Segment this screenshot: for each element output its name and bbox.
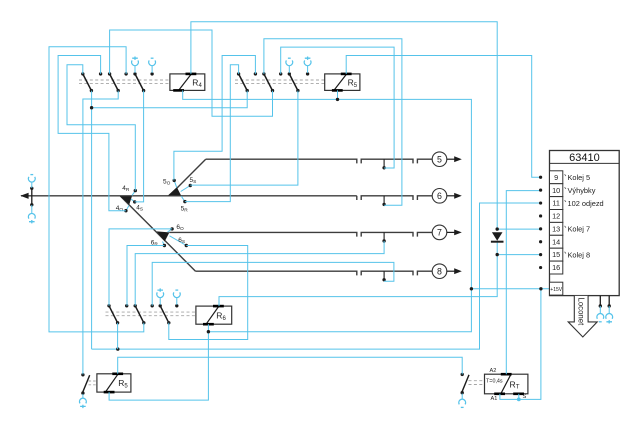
wire: terminal B2 to turnout terminal 5O <box>174 56 256 181</box>
RT switch minus supply plug <box>459 394 466 408</box>
relay R6 contact group supply plug minus <box>173 290 180 305</box>
module terminal pin 13 <box>539 222 590 235</box>
wire: junction line to module pin 11 <box>92 203 541 349</box>
relay coil R5 (lower) <box>97 374 131 392</box>
R5 lower activation switch <box>81 373 89 395</box>
svg-text:Kolej 5: Kolej 5 <box>568 173 591 182</box>
svg-text:Výhybky: Výhybky <box>568 186 596 195</box>
turnout 6 frog (black wedge) <box>157 231 170 241</box>
relay R5 contact group supply plug minus <box>286 58 293 73</box>
relay R4 contact group supply plug minus <box>149 58 156 73</box>
wire: turnout terminal 6O to contact C1 top <box>109 229 172 306</box>
svg-text:7: 7 <box>437 228 442 238</box>
svg-text:8: 8 <box>437 266 442 276</box>
wire: turnout terminal 6S to contact C5 bottom <box>169 246 248 340</box>
turnout 4 frog (black wedge) <box>120 196 132 204</box>
turnout 5 frog (black wedge) <box>168 187 181 195</box>
decoder module 63410 body <box>550 151 620 296</box>
svg-text:A2: A2 <box>490 368 497 374</box>
track line 5 with isolation gaps <box>206 159 433 169</box>
wire: contact A3 bottom to turnout terminal 4S <box>135 91 144 202</box>
turnout 4 terminal 4O <box>116 205 129 213</box>
wire: relay R5 coil bottom stub <box>337 90 339 99</box>
junction dot RT terminal S (cyan) <box>517 398 521 402</box>
wire: cathode junction to module pin 15 <box>497 254 540 256</box>
turnout 5 terminal 5R <box>181 196 189 213</box>
wire: junction to contact B1 bottom <box>92 91 248 108</box>
wire: module pin 10 to RT terminal A2 <box>506 191 540 375</box>
wire: terminal C4 to track 8 tap <box>152 262 394 305</box>
wire: terminal A4 to contact C3 bottom <box>49 47 144 332</box>
relay coil R4 <box>170 74 205 91</box>
module bottom terminal stub right <box>608 296 611 308</box>
R5 lower linkage dashed line <box>89 381 97 385</box>
svg-text:5O: 5O <box>163 179 171 187</box>
svg-text:12: 12 <box>552 212 560 221</box>
connector circle 7 with arrow <box>432 225 462 240</box>
module terminal pin 15 <box>539 248 590 261</box>
turnout 5 terminal 5S <box>181 177 197 191</box>
wire: contact A3 top to contact B3 bottom <box>110 30 273 116</box>
wire: relay R6 coil bottom to relay R5 lower coil bottom <box>109 324 208 400</box>
RT linkage dashed line <box>469 381 485 385</box>
svg-text:4S: 4S <box>136 204 143 212</box>
junction dot +15V node <box>470 287 473 290</box>
svg-text:T=0,4s: T=0,4s <box>486 378 503 384</box>
svg-text:Kolej 7: Kolej 7 <box>568 225 591 234</box>
wire: +15V junction down and west to relay R6 coil bottom junction <box>208 289 471 332</box>
module terminal pin 9 <box>539 171 590 184</box>
svg-text:9: 9 <box>554 173 558 182</box>
main line (track from left arrow through turnouts 4 and 5) <box>20 193 357 200</box>
svg-text:6R: 6R <box>151 239 159 247</box>
wire: contact C1 bottom drop <box>117 323 119 349</box>
svg-text:6: 6 <box>437 191 442 201</box>
svg-text:5R: 5R <box>181 206 189 214</box>
wire: diode anode junction to module pin 13 <box>497 228 540 230</box>
module terminal pin 14 <box>539 235 563 248</box>
svg-text:5S: 5S <box>190 177 197 185</box>
relay R6 contact group supply plug plus <box>157 288 164 304</box>
wire: contact B1 top to turnout terminal 5R <box>185 65 239 202</box>
turnout 6 terminal 6S <box>170 236 189 247</box>
turnout 4 terminal 4S <box>131 199 143 212</box>
svg-text:6S: 6S <box>178 237 185 245</box>
junction dot +15V line at RT riser <box>539 287 542 290</box>
svg-text:A1: A1 <box>491 396 498 402</box>
turnout 5 terminal 5O <box>163 179 177 188</box>
wire: contact A1 bottom down to junction line <box>91 91 93 350</box>
wire: turnout terminal 6R to terminal C2 <box>127 246 164 306</box>
diode D1 <box>491 227 504 256</box>
module terminal pin 16 <box>539 261 563 274</box>
wire: contact B5 bottom to turnout terminal 5S <box>190 91 298 185</box>
svg-text:63410: 63410 <box>569 152 600 164</box>
svg-text:6O: 6O <box>176 224 184 232</box>
svg-text:5: 5 <box>437 154 442 164</box>
svg-text:4O: 4O <box>116 205 124 213</box>
module bottom terminal stub left <box>599 296 602 308</box>
relay R5 contact group changeover contacts with linkage <box>235 72 325 92</box>
module terminal pin 10 <box>539 184 596 197</box>
time relay RT <box>485 374 528 394</box>
wire: RT terminal S stub <box>518 394 520 400</box>
diagonal track from turnout 5 up to track 5 <box>169 159 205 196</box>
junction dot R5 coil bottom <box>336 98 339 101</box>
wire: diode cathode down and west to relay R6 coil top <box>219 242 497 306</box>
wire: terminal A2 to turnout terminal 4O <box>58 56 126 211</box>
connector circle 5 with arrow <box>432 152 462 167</box>
module terminal pin 11 <box>539 197 604 210</box>
svg-text:16: 16 <box>552 263 560 272</box>
connector circle 8 with arrow <box>432 264 462 279</box>
svg-text:15: 15 <box>552 250 560 259</box>
wire: contact A1 top to turnout terminal 4R <box>67 65 135 191</box>
wire: relay R4 coil bottom to module +15V pin <box>183 90 550 288</box>
relay coil R6 <box>196 306 232 324</box>
track line 7 with isolation gaps <box>169 232 432 242</box>
svg-text:14: 14 <box>552 237 560 246</box>
track line 8 with isolation gaps <box>196 271 433 281</box>
connector circle 6 with arrow <box>432 189 462 204</box>
main line middle+right isolated segments, track 6 <box>361 196 432 206</box>
left track feed: black cross stub with dots <box>30 187 33 207</box>
wire: contact C3 top to track 7 tap <box>135 241 384 306</box>
junction dot R6 coil bottom <box>207 330 210 333</box>
svg-text:4R: 4R <box>122 185 130 193</box>
svg-text:11: 11 <box>552 199 560 208</box>
relay coil R5 <box>325 74 360 91</box>
svg-text:13: 13 <box>552 224 560 233</box>
turnout 4 terminal 4R <box>122 185 137 195</box>
svg-text:Loconet: Loconet <box>577 298 586 327</box>
relay R4 contact group supply plug plus <box>132 57 139 73</box>
relay R5 contact group supply plug plus <box>304 57 311 73</box>
wire: contact B3 top to track 6 tap <box>264 39 402 206</box>
turnout 6 terminal 6R <box>151 239 166 247</box>
junction dot contact C1 bottom on pin-11 line <box>116 347 119 350</box>
junction dot contact A1 bottom <box>90 106 93 109</box>
diagonal track from turnout 4 down to track 8 <box>120 196 195 271</box>
wire: relay R5 coil top to module pin 9 <box>346 56 540 178</box>
module terminal pin 12 <box>539 210 563 223</box>
wire: relay R5 lower coil top to RT switch <box>118 357 463 374</box>
relay R4 contact group changeover contacts with linkage <box>79 72 170 92</box>
module minus supply plug <box>597 306 604 322</box>
relay R6 contact group changeover contacts with linkage <box>106 304 196 324</box>
wire: RT terminal A1 to +15V line <box>500 289 541 400</box>
wire: relay R4 coil top to diode anode <box>191 22 497 229</box>
module terminal pin +15V <box>550 282 563 295</box>
svg-text:102 odjezd: 102 odjezd <box>568 199 604 208</box>
Loconet arrow <box>568 296 597 337</box>
module title 63410 <box>550 152 620 164</box>
svg-text:+15V: +15V <box>550 287 562 293</box>
RT activation switch <box>461 373 470 395</box>
svg-text:Kolej 8: Kolej 8 <box>568 250 591 259</box>
left feed minus supply symbol <box>28 175 35 188</box>
turnout 6 terminal 6O <box>168 224 185 232</box>
left feed plus supply symbol <box>28 205 35 223</box>
wire: terminal B4 to track 5 tap <box>281 47 394 168</box>
svg-text:10: 10 <box>552 186 560 195</box>
wire: contact A2 bottom to lower switch <box>83 91 118 375</box>
module plus supply plug <box>606 306 613 324</box>
R5 lower switch plus supply plug <box>80 394 87 408</box>
